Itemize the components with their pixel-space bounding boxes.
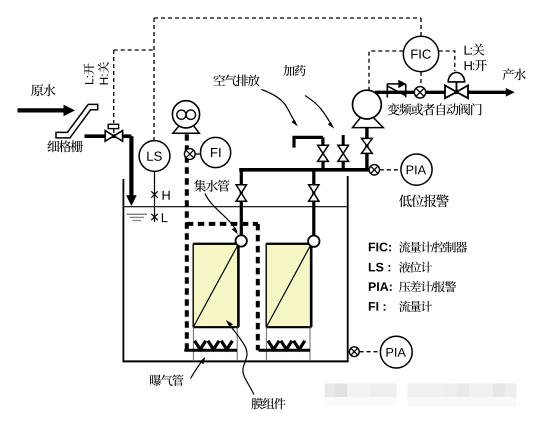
module M2 riser valve xyxy=(309,185,319,193)
tank bottom xyxy=(123,360,349,362)
label PIA2 xyxy=(386,348,405,357)
label L:开 (rotated) xyxy=(83,63,94,84)
check valve (flap with arrow) xyxy=(387,84,405,98)
inlet valve V1 stem and cap xyxy=(113,128,115,133)
membrane module M2 diagonal xyxy=(267,245,311,326)
label H xyxy=(163,191,170,200)
module M2 header ball xyxy=(308,236,319,247)
inlet pipe horizontal xyxy=(85,134,132,138)
legend FIC text xyxy=(399,241,467,252)
label LS xyxy=(147,151,161,160)
label L:关 xyxy=(465,44,485,56)
control signal dashed line: inlet valve branch vertical xyxy=(113,50,115,123)
flow indicator FI circle xyxy=(201,137,231,167)
high level mark x H xyxy=(151,191,157,197)
manifold end tap circle-X xyxy=(369,165,379,175)
arrow from 曝气管 to aeration pipe xyxy=(191,361,203,379)
pipe tap circle-X below FIC xyxy=(414,87,425,98)
membrane module M2 body xyxy=(266,244,311,327)
control valve actuator stem xyxy=(456,82,458,92)
air blower (roots blower circle with two lobes) xyxy=(172,101,199,128)
label H:开 xyxy=(465,59,487,71)
collection manifold pipe 集水管 xyxy=(239,168,370,172)
label 低位报警 (low level alarm) xyxy=(399,195,449,208)
air blower base xyxy=(173,125,200,133)
level switch LS circle xyxy=(139,141,170,172)
legend FIC prefix xyxy=(369,243,391,252)
dosing valve xyxy=(338,145,349,153)
label L xyxy=(162,213,168,222)
tank right wall xyxy=(347,176,349,361)
control signal dashed line: FIC to pipe tap xyxy=(420,72,422,87)
tank left wall xyxy=(122,179,124,361)
aeration pipe 2 with diffusers xyxy=(259,349,311,352)
dashed link tap to PIA2 xyxy=(360,351,381,353)
label 细格栅 (fine screen) xyxy=(47,140,83,152)
label FI xyxy=(211,148,220,157)
automatic control valve body xyxy=(445,85,457,98)
fine screen 细格栅 (escalator symbol) xyxy=(56,104,98,137)
label 产水 (product water) xyxy=(502,68,525,80)
legend FI prefix xyxy=(369,302,386,311)
control signal dashed line: FIC to pump xyxy=(369,51,403,90)
label 原水 (raw water) xyxy=(31,84,55,96)
raw water inlet arrow xyxy=(18,108,65,112)
inlet drop pipe with down arrow into tank xyxy=(129,136,133,196)
control signal dashed line: FIC to control valve xyxy=(439,51,455,71)
product water pipe xyxy=(375,91,507,94)
module M1 riser valve xyxy=(236,185,246,193)
water surface line xyxy=(124,206,346,208)
air pipe (thick dashed) branch down to right aerator xyxy=(256,224,260,350)
pump suction pipe from manifold xyxy=(365,127,368,169)
label FIC xyxy=(411,50,430,59)
control signal dashed line: top bus from LS to FIC xyxy=(154,17,421,19)
label 膜组件 (membrane module) xyxy=(251,398,285,409)
dosing point 加药 (stub) xyxy=(342,135,345,146)
label 集水管 (collection pipe) xyxy=(194,180,229,192)
arrow from 集水管 to header ball xyxy=(205,194,237,233)
module M1 header ball xyxy=(236,235,247,246)
pressure alarm PIA2 circle xyxy=(380,336,412,368)
membrane module M1 body xyxy=(193,244,238,327)
air release pipe 空气排放 xyxy=(292,137,323,147)
label 加药 (dosing) xyxy=(283,65,305,76)
label PIA1 xyxy=(407,165,426,174)
air release valve xyxy=(318,145,329,153)
membrane module M1 frame legs to floor xyxy=(192,327,194,361)
legend PIA prefix xyxy=(369,282,392,291)
legend LS text xyxy=(399,262,432,273)
flow controller FIC circle xyxy=(403,36,438,71)
aeration pipe 1 with diffusers xyxy=(184,349,237,352)
pressure alarm PIA1 circle xyxy=(401,154,432,185)
arrow from 加药 to dosing stub xyxy=(305,96,332,126)
pump suction valve xyxy=(362,138,373,146)
membrane module M2 frame legs to floor xyxy=(265,327,267,361)
module M1 riser pipe xyxy=(240,171,243,236)
label 曝气管 (aeration pipe) xyxy=(150,375,184,387)
control valve diaphragm actuator dome xyxy=(448,72,464,82)
tank bottom tap circle-X xyxy=(349,347,359,357)
legend FI text xyxy=(399,301,432,312)
arrow from 空气排放 to release pipe xyxy=(262,90,296,124)
legend LS prefix xyxy=(369,263,390,272)
water surface symbol xyxy=(127,214,148,220)
LS sensing line down xyxy=(154,172,156,223)
label H:关 (rotated) xyxy=(98,62,109,85)
dashed link tap to PIA1 xyxy=(380,169,401,171)
control signal dashed line: LS riser xyxy=(153,18,155,140)
watermark blocks xyxy=(325,384,517,407)
label 空气排放 (air release) xyxy=(213,74,259,86)
permeate pump circle xyxy=(353,90,382,119)
inlet valve V1 body (gate valve) xyxy=(105,131,114,142)
label 变频或者自动阀门 xyxy=(387,103,481,115)
air line tap circle-X to FI xyxy=(195,153,201,155)
legend PIA text xyxy=(399,281,456,292)
low level mark x L xyxy=(151,214,157,220)
control signal dashed line: inlet valve branch horizontal xyxy=(114,49,154,51)
control signal dashed line: FIC riser xyxy=(420,18,422,36)
membrane module M1 diagonal xyxy=(194,245,238,326)
arrow from 膜组件 to module xyxy=(229,324,255,395)
air pipe (thick dashed) branch horizontal xyxy=(187,222,258,226)
permeate pump base xyxy=(353,118,384,128)
module M2 riser pipe xyxy=(312,171,315,236)
air pipe (thick dashed) blower down to left aerator xyxy=(185,134,189,350)
